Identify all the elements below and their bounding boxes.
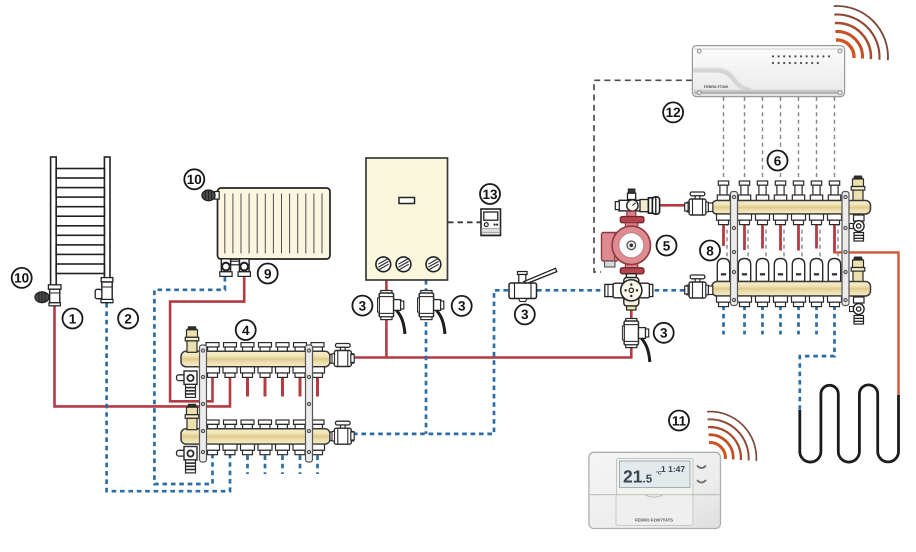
towel radiator rails — [51, 157, 57, 286]
radiator 9 bottom connection block — [220, 259, 251, 277]
boiler slot — [399, 198, 415, 204]
manifold 6 loop stubs — [724, 222, 817, 251]
svg-text:6: 6 — [774, 153, 782, 168]
manifold 4 air vent top — [185, 326, 199, 352]
svg-text:3: 3 — [521, 307, 529, 322]
4-way mixing valve — [605, 278, 653, 311]
manifold 8 bar — [712, 282, 871, 297]
manifold right brackets — [731, 192, 850, 306]
manifold 4 supply ball valve — [330, 344, 354, 367]
manifold 8 loop stubs ports 1-6 — [724, 306, 817, 335]
svg-text:8: 8 — [706, 243, 714, 258]
manifold 4 loop stubs ports 3-7 — [248, 368, 318, 397]
svg-text:13: 13 — [482, 187, 498, 202]
actuator stems — [717, 181, 729, 201]
svg-text:1: 1 — [69, 311, 77, 326]
wire controller 12 to actuators (7 lines) — [724, 97, 835, 199]
svg-text:12: 12 — [666, 105, 681, 120]
manifold 8 drain right — [850, 297, 865, 324]
pump 5 — [602, 211, 651, 280]
manifold 4 bracket right — [306, 345, 313, 462]
manifold 4 drain valve bottom — [177, 447, 198, 473]
manifold 8 ball valve left — [685, 275, 713, 298]
svg-text:FERRO FT200: FERRO FT200 — [704, 85, 728, 89]
ball valve 3 boiler return — [418, 291, 445, 335]
pipe towel radiator return to manifold 4 bottom port 2 — [107, 303, 230, 491]
wire boiler to room stat 13 — [448, 221, 481, 223]
manifold 6 drain right — [850, 215, 865, 241]
flow meters — [717, 259, 729, 282]
svg-text:10: 10 — [187, 172, 202, 187]
svg-text:3: 3 — [458, 299, 466, 314]
pipe manifold 6 to floor loop feed — [833, 252, 898, 396]
manifold 4 bracket left — [200, 345, 207, 462]
svg-text:21: 21 — [623, 467, 643, 487]
pipe manifold 6 port 7 stub — [833, 222, 836, 252]
wire stubs between manifolds to flow meters — [727, 222, 838, 258]
svg-text:1 1:47: 1 1:47 — [661, 464, 685, 474]
radiator valve 1 with thermostatic head — [35, 285, 61, 306]
pipe main return manifold 4 to mixing group and manifold 8 — [353, 290, 688, 434]
manifold 6 bar — [712, 201, 871, 215]
towel radiator rungs — [56, 169, 104, 274]
svg-text:10: 10 — [14, 271, 29, 286]
pipe radiator 9 supply to manifold 4 port 1 — [170, 275, 244, 401]
wire controller 12 to pump — [594, 80, 692, 272]
svg-text:3: 3 — [660, 326, 668, 341]
manifold 6 ball valve left — [685, 192, 713, 215]
radiator 9 body — [218, 188, 331, 259]
manifold 4 air vent bottom — [185, 404, 199, 430]
pipe towel radiator supply to manifold 4 port 2 — [55, 304, 231, 406]
pipe main supply manifold 4 to pump column — [352, 306, 631, 358]
manifold 8 air vent — [851, 257, 865, 283]
manifold 4 return bar — [181, 420, 330, 455]
manifold 6 air vent — [851, 176, 865, 202]
boiler connections — [376, 257, 441, 272]
pipe boiler supply down — [385, 280, 388, 358]
svg-text:3: 3 — [359, 298, 367, 313]
svg-text:.5: .5 — [643, 474, 653, 486]
floor heating serpentine — [800, 385, 899, 462]
manifold 4 bottom loop stubs ports 3-7 — [248, 447, 318, 474]
svg-text:11: 11 — [672, 413, 687, 428]
pipe manifold 8 port 7 to floor loop return — [800, 306, 835, 411]
manifold 4 return ball valve — [330, 421, 354, 444]
ball valve 3 boiler supply — [378, 291, 405, 335]
pipe boiler return down — [425, 280, 428, 434]
radiator 9 fins — [225, 194, 322, 254]
manifold 4 drain valve top — [177, 371, 198, 397]
radiator valve 2 — [95, 278, 113, 303]
svg-text:9: 9 — [264, 266, 272, 281]
ball valve 3 under pump — [622, 319, 649, 363]
boiler body — [366, 158, 448, 280]
thermostatic head 10 on radiator 9 — [202, 190, 219, 201]
pipe mixing valve to manifold 6 — [659, 204, 689, 207]
wifi signal controller — [834, 6, 888, 60]
ball valve 3 horizontal on return — [509, 268, 557, 301]
svg-text:FERRO F2007TATS: FERRO F2007TATS — [635, 518, 673, 523]
svg-text:2: 2 — [124, 311, 132, 326]
mixing valve with gauge — [615, 189, 659, 214]
manifold 4 supply bar — [181, 343, 330, 378]
svg-text:4: 4 — [242, 323, 250, 338]
svg-text:5: 5 — [663, 238, 671, 253]
wifi signal thermostat — [707, 412, 756, 461]
pipe radiator 9 return to manifold 4 bottom port 1 — [154, 277, 225, 484]
